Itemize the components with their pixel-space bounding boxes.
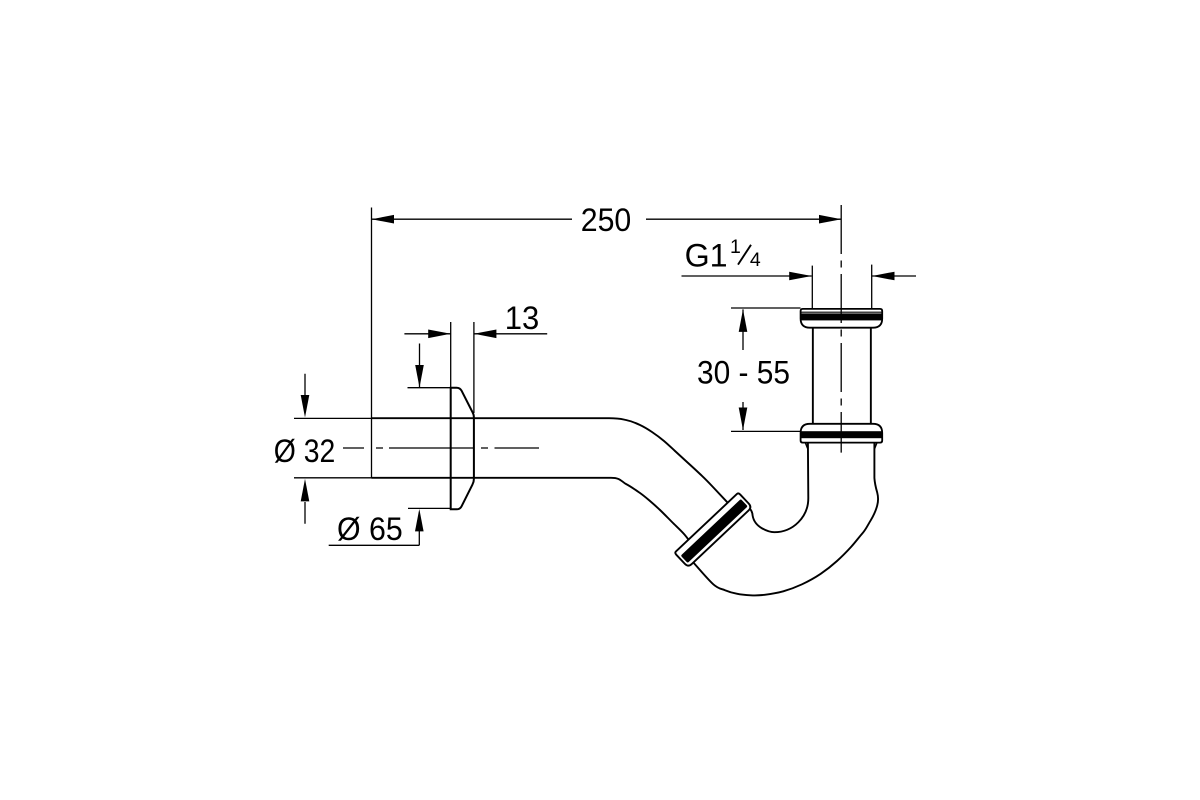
svg-text:4: 4 — [750, 249, 761, 271]
vertical pipe between nuts — [812, 314, 872, 441]
bottom nut — [800, 424, 882, 443]
centerline of horizontal pipe — [343, 447, 539, 449]
svg-text:250: 250 — [581, 202, 632, 238]
dimension 250: line + arrows — [372, 215, 842, 224]
svg-text:Ø 32: Ø 32 — [274, 433, 336, 469]
taper ticks below bottom nut — [806, 443, 877, 449]
centerline of vertical pipe — [840, 205, 842, 453]
inlet pipe bottom outline — [372, 478, 706, 558]
top nut — [800, 309, 882, 328]
svg-text:13: 13 — [505, 300, 540, 336]
U-bend trap body (fill) — [692, 441, 878, 595]
trap outer curve outline — [692, 441, 878, 595]
svg-text:G1: G1 — [685, 238, 728, 274]
dimension 250: extension line left — [371, 208, 373, 478]
dimension G1 1/4: line + arrows — [682, 272, 917, 281]
trap inner curve outline — [746, 441, 809, 532]
dimension Ø32: arrows — [301, 374, 310, 524]
dimension 13: extension lines — [450, 322, 452, 387]
dimension 13: line + arrows — [404, 330, 547, 339]
wall flange (escutcheon) — [451, 388, 474, 510]
dimension G1 1/4: extension lines — [811, 266, 813, 309]
dimension Ø32: extension lines — [294, 417, 372, 419]
reference arrow to flange face — [408, 344, 451, 388]
slip nut on diagonal pipe — [674, 493, 752, 568]
label G1 1/4 — [685, 236, 761, 274]
dimension 30-55: line + arrows — [739, 309, 748, 430]
svg-text:1: 1 — [730, 236, 741, 258]
svg-text:30 - 55: 30 - 55 — [697, 355, 790, 391]
dimension 30-55: extension lines — [731, 307, 801, 309]
inlet pipe: horizontal + sweeping elbow + diagonal (fill) — [372, 418, 745, 557]
inlet pipe top outline — [372, 418, 745, 520]
svg-text:Ø 65: Ø 65 — [337, 511, 403, 547]
dimension Ø65: leader — [329, 508, 451, 545]
